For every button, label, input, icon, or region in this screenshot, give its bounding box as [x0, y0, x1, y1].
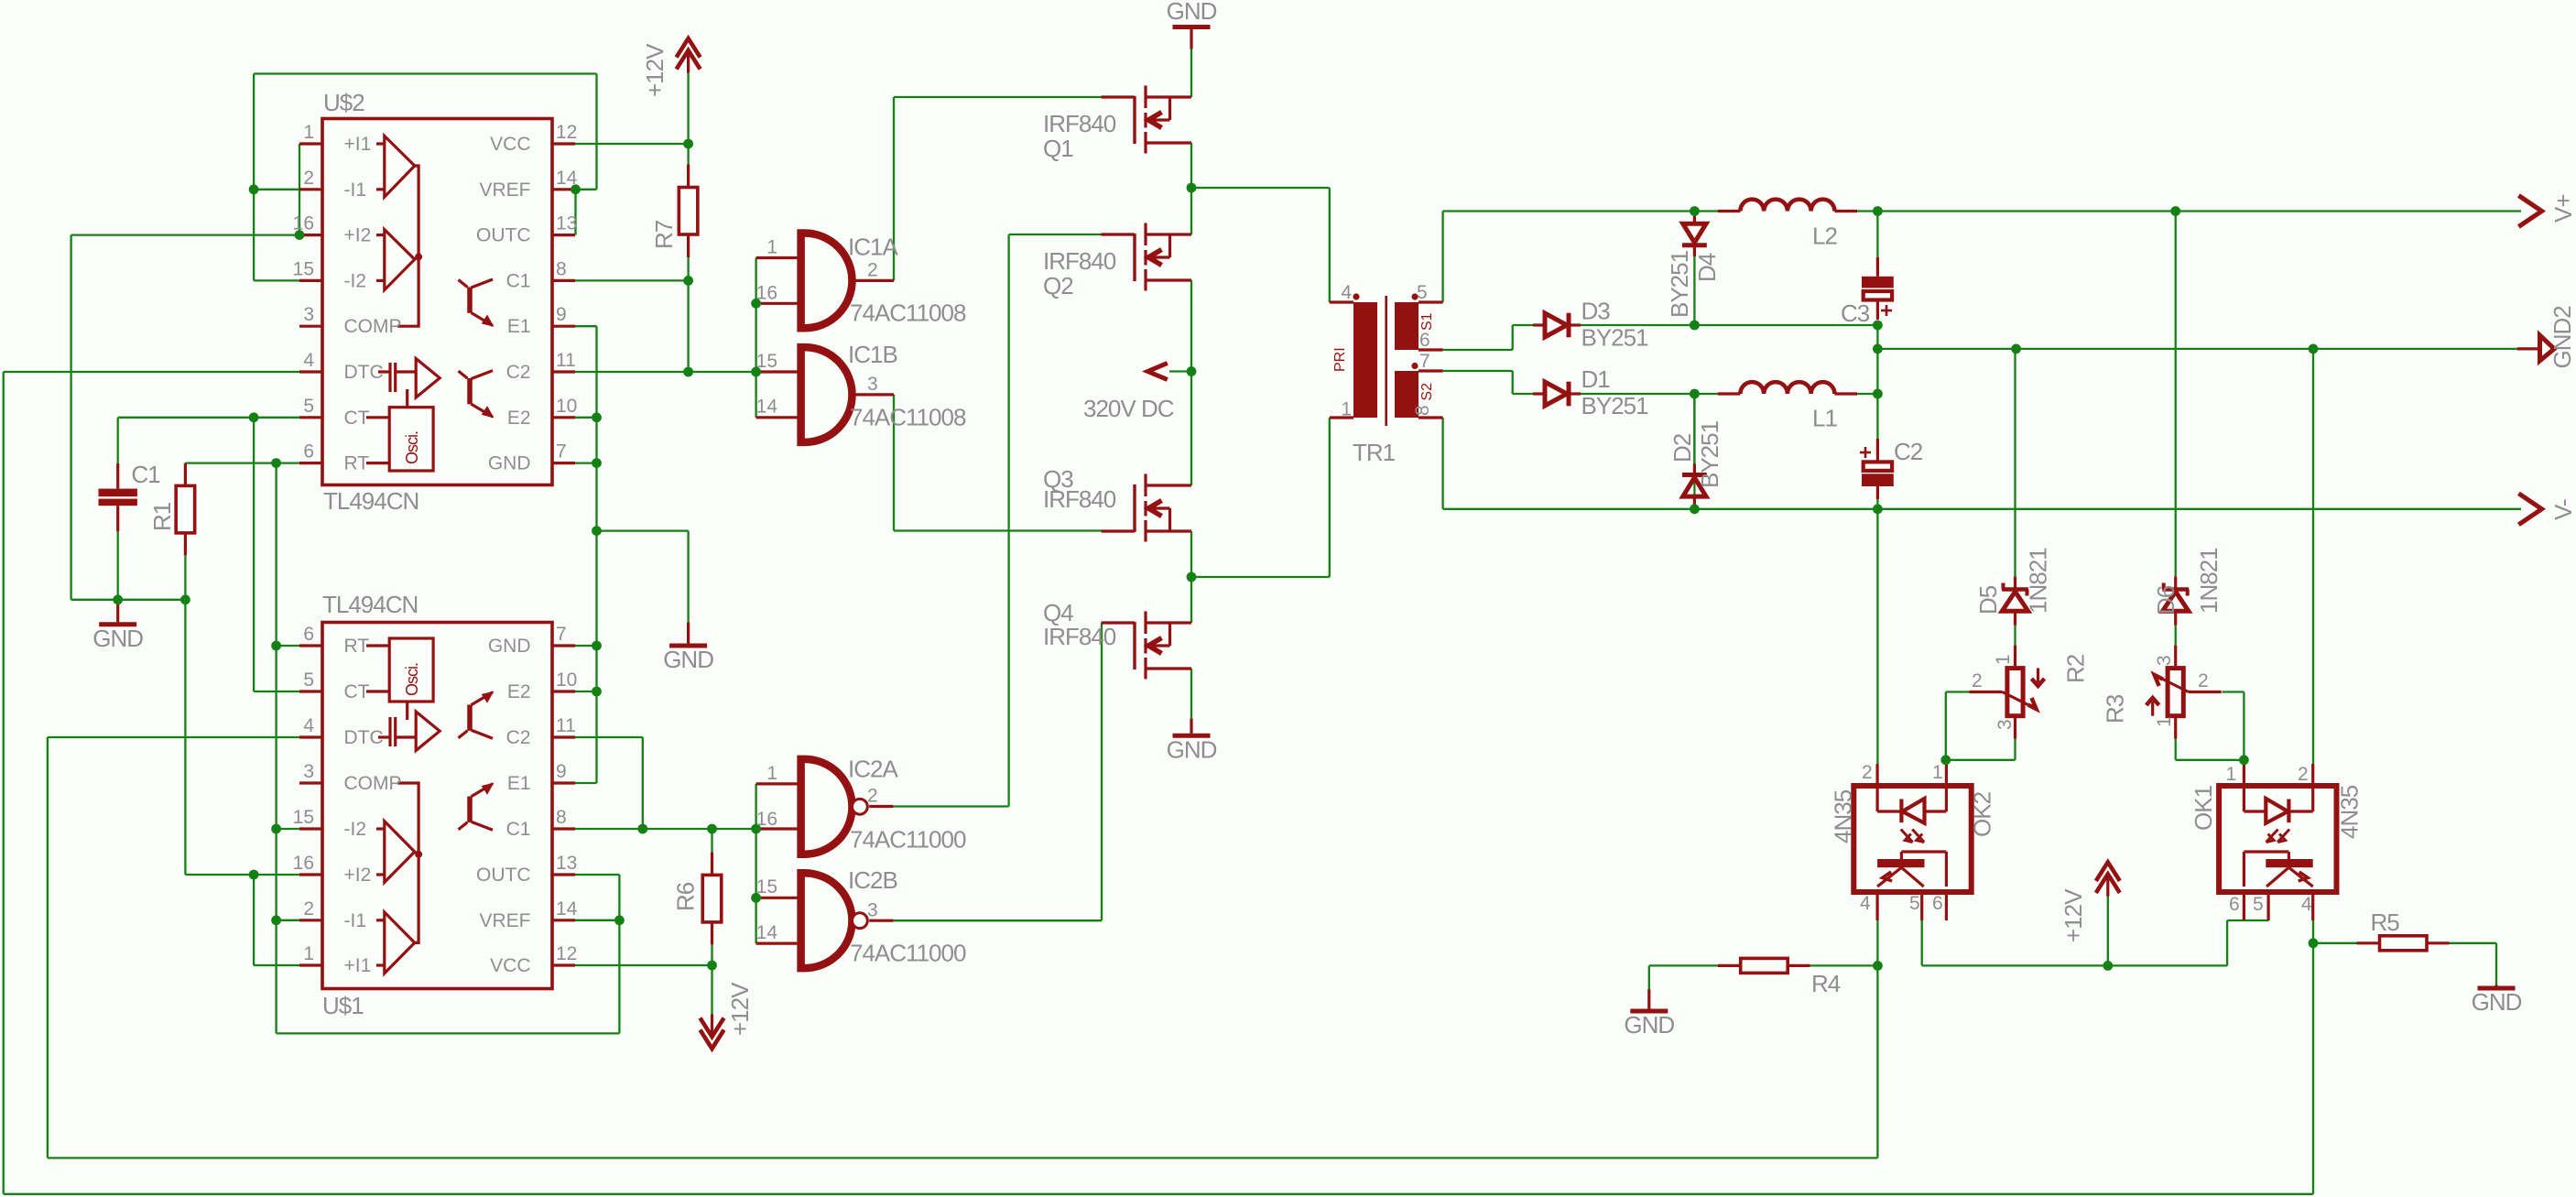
svg-text:IRF840: IRF840 [1043, 485, 1116, 513]
svg-text:+12V: +12V [726, 982, 754, 1036]
svg-text:15: 15 [293, 807, 314, 828]
svg-text:PRI: PRI [1332, 347, 1348, 372]
svg-text:TR1: TR1 [1353, 439, 1396, 466]
svg-text:L1: L1 [1812, 405, 1837, 432]
svg-text:16: 16 [756, 282, 777, 303]
svg-text:OUTC: OUTC [476, 865, 531, 886]
svg-text:1N821: 1N821 [2195, 548, 2223, 614]
svg-text:GND2: GND2 [2549, 306, 2576, 369]
svg-text:6: 6 [1419, 330, 1430, 351]
svg-text:IC2B: IC2B [848, 866, 897, 894]
svg-text:3: 3 [2154, 655, 2175, 666]
svg-text:IC1B: IC1B [848, 341, 897, 368]
svg-text:R2: R2 [2062, 654, 2090, 683]
svg-text:7: 7 [1419, 351, 1430, 372]
svg-text:OK1: OK1 [2190, 785, 2217, 831]
svg-text:16: 16 [293, 213, 314, 234]
svg-text:GND: GND [1167, 735, 1217, 763]
svg-text:15: 15 [293, 258, 314, 279]
svg-text:BY251: BY251 [1666, 250, 1693, 318]
svg-text:C2: C2 [1894, 438, 1923, 465]
svg-text:13: 13 [556, 853, 577, 874]
svg-text:COMP: COMP [344, 773, 402, 794]
svg-text:4N35: 4N35 [1829, 789, 1856, 843]
svg-text:IC1A: IC1A [848, 234, 898, 261]
svg-text:6: 6 [303, 624, 314, 645]
svg-text:2: 2 [2198, 670, 2209, 691]
svg-text:E2: E2 [507, 408, 531, 429]
svg-text:74AC11008: 74AC11008 [850, 299, 966, 327]
svg-text:D2: D2 [1668, 433, 1696, 462]
svg-text:13: 13 [556, 213, 577, 234]
svg-text:14: 14 [556, 168, 578, 189]
svg-text:4N35: 4N35 [2336, 785, 2364, 839]
svg-text:74AC11008: 74AC11008 [850, 404, 966, 431]
svg-text:2: 2 [303, 898, 314, 920]
svg-text:6: 6 [2229, 894, 2240, 915]
svg-text:S1: S1 [1419, 312, 1435, 331]
svg-text:1: 1 [303, 943, 314, 964]
svg-text:9: 9 [556, 761, 567, 782]
svg-text:Q2: Q2 [1043, 272, 1073, 299]
svg-text:2: 2 [2298, 764, 2309, 785]
svg-text:3: 3 [303, 761, 314, 782]
svg-text:VCC: VCC [490, 955, 530, 976]
svg-text:IRF840: IRF840 [1043, 623, 1116, 650]
svg-text:+I2: +I2 [344, 865, 372, 886]
svg-text:10: 10 [556, 669, 577, 691]
svg-text:12: 12 [556, 122, 577, 143]
svg-text:8: 8 [556, 807, 567, 828]
svg-text:+I1: +I1 [344, 955, 372, 976]
svg-text:V+: V+ [2549, 194, 2576, 223]
svg-text:+I1: +I1 [344, 134, 372, 155]
svg-text:1: 1 [2154, 716, 2175, 727]
svg-text:1: 1 [1932, 762, 1943, 783]
svg-text:GND: GND [663, 646, 713, 673]
svg-text:7: 7 [556, 441, 567, 462]
svg-text:-I1: -I1 [344, 910, 367, 931]
svg-text:1: 1 [1993, 654, 2014, 665]
svg-text:-I1: -I1 [344, 180, 367, 201]
svg-text:+12V: +12V [2060, 888, 2087, 942]
svg-text:6: 6 [303, 441, 314, 462]
svg-text:R5: R5 [2371, 909, 2400, 936]
svg-text:2: 2 [867, 259, 878, 280]
svg-text:4: 4 [303, 715, 314, 736]
svg-text:U$2: U$2 [323, 89, 364, 116]
svg-text:-I2: -I2 [344, 819, 367, 840]
svg-text:E2: E2 [507, 681, 531, 702]
svg-text:4: 4 [1860, 893, 1871, 914]
svg-text:R6: R6 [672, 882, 700, 911]
svg-text:OK2: OK2 [1969, 791, 1996, 837]
svg-text:C1: C1 [506, 270, 531, 291]
svg-text:L2: L2 [1812, 223, 1837, 250]
svg-text:15: 15 [756, 351, 777, 372]
svg-text:14: 14 [756, 922, 778, 943]
svg-text:12: 12 [556, 943, 577, 964]
svg-text:4: 4 [2301, 894, 2312, 915]
svg-text:CT: CT [344, 408, 370, 429]
svg-text:D5: D5 [1974, 585, 2002, 615]
svg-text:BY251: BY251 [1696, 420, 1723, 488]
svg-text:5: 5 [303, 669, 314, 691]
svg-text:4: 4 [1341, 282, 1352, 303]
svg-text:D3: D3 [1581, 298, 1611, 325]
svg-text:14: 14 [756, 397, 778, 418]
svg-text:VREF: VREF [479, 180, 530, 201]
svg-text:4: 4 [303, 350, 314, 371]
svg-text:S2: S2 [1419, 383, 1435, 401]
svg-text:VREF: VREF [479, 910, 530, 931]
svg-text:R4: R4 [1811, 970, 1841, 997]
svg-text:R7: R7 [650, 220, 678, 249]
svg-text:11: 11 [556, 715, 576, 736]
svg-text:D1: D1 [1581, 365, 1611, 393]
svg-text:14: 14 [556, 898, 578, 920]
svg-text:11: 11 [556, 350, 576, 371]
svg-text:D4: D4 [1693, 253, 1721, 282]
svg-text:E1: E1 [507, 316, 531, 337]
svg-text:6: 6 [1932, 893, 1943, 914]
svg-text:5: 5 [1909, 893, 1920, 914]
svg-text:9: 9 [556, 304, 567, 325]
svg-text:GND: GND [92, 625, 143, 652]
svg-text:Osci.: Osci. [403, 663, 421, 696]
svg-text:3: 3 [1994, 719, 2016, 730]
svg-text:BY251: BY251 [1581, 392, 1649, 419]
svg-text:74AC11000: 74AC11000 [850, 825, 966, 853]
svg-text:VCC: VCC [490, 134, 530, 155]
svg-text:2: 2 [303, 168, 314, 189]
svg-text:2: 2 [1862, 762, 1873, 783]
svg-text:IRF840: IRF840 [1043, 247, 1116, 275]
svg-text:2: 2 [867, 786, 878, 807]
svg-text:2: 2 [1972, 670, 1983, 691]
svg-text:+I2: +I2 [344, 225, 372, 246]
svg-text:16: 16 [293, 853, 314, 874]
svg-text:GND: GND [2472, 988, 2522, 1016]
svg-text:Q1: Q1 [1043, 135, 1073, 162]
svg-text:IRF840: IRF840 [1043, 110, 1116, 137]
svg-text:1N821: 1N821 [2025, 548, 2052, 614]
svg-text:3: 3 [303, 304, 314, 325]
svg-text:U$1: U$1 [322, 992, 364, 1019]
svg-text:D6: D6 [2152, 585, 2179, 615]
svg-text:3: 3 [867, 899, 878, 920]
svg-text:1: 1 [303, 122, 314, 143]
svg-text:CT: CT [344, 681, 370, 702]
svg-text:IC2A: IC2A [848, 755, 898, 782]
svg-text:V-: V- [2549, 499, 2576, 520]
svg-text:1: 1 [766, 237, 777, 258]
svg-text:320V DC: 320V DC [1083, 395, 1174, 422]
svg-text:R1: R1 [148, 502, 176, 531]
svg-text:E1: E1 [507, 773, 531, 794]
svg-text:7: 7 [556, 624, 567, 645]
svg-text:TL494CN: TL494CN [322, 591, 418, 618]
svg-text:RT: RT [344, 453, 370, 474]
svg-text:GND: GND [488, 636, 531, 657]
svg-text:10: 10 [556, 396, 577, 417]
svg-text:5: 5 [2253, 894, 2264, 915]
svg-text:1: 1 [1341, 399, 1352, 420]
svg-text:3: 3 [867, 374, 878, 395]
svg-text:5: 5 [1417, 282, 1428, 303]
svg-text:GND: GND [1624, 1011, 1674, 1039]
svg-text:Osci.: Osci. [403, 431, 421, 464]
svg-text:OUTC: OUTC [476, 225, 531, 246]
svg-text:COMP: COMP [344, 316, 402, 337]
svg-text:1: 1 [2226, 764, 2237, 785]
svg-text:-I2: -I2 [344, 270, 367, 291]
svg-text:R3: R3 [2102, 694, 2129, 724]
svg-text:8: 8 [1412, 405, 1433, 416]
svg-text:GND: GND [488, 453, 531, 474]
svg-text:C2: C2 [506, 362, 531, 383]
svg-text:BY251: BY251 [1581, 324, 1649, 352]
svg-text:5: 5 [303, 396, 314, 417]
svg-text:1: 1 [766, 763, 777, 784]
svg-text:C1: C1 [131, 461, 160, 488]
svg-text:C3: C3 [1841, 299, 1870, 327]
svg-text:DTC: DTC [344, 727, 384, 748]
svg-text:C2: C2 [506, 727, 531, 748]
svg-text:15: 15 [756, 876, 777, 898]
svg-text:DTC: DTC [344, 362, 384, 383]
svg-text:RT: RT [344, 636, 370, 657]
svg-text:GND: GND [1167, 0, 1217, 25]
svg-text:+12V: +12V [641, 43, 668, 97]
svg-text:TL494CN: TL494CN [323, 487, 418, 515]
svg-text:C1: C1 [506, 819, 531, 840]
svg-text:8: 8 [556, 258, 567, 279]
svg-text:74AC11000: 74AC11000 [850, 939, 966, 966]
svg-text:16: 16 [756, 809, 777, 830]
